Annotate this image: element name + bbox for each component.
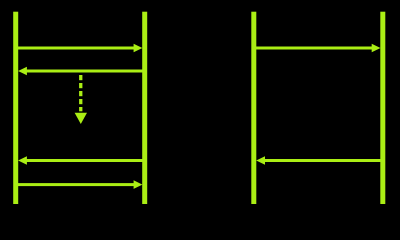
arrow M5 right L1->L2	[16, 180, 143, 189]
lifeline L2	[142, 12, 147, 204]
arrow M2 left L2->L1	[18, 67, 145, 76]
arrow M4 left L2->L1	[18, 156, 145, 165]
arrow M1 right L1->L2	[16, 44, 143, 53]
lifeline L1	[13, 12, 18, 204]
lifeline L4	[380, 12, 385, 204]
arrow M6 right L3->L4	[254, 44, 381, 53]
arrow M7 left L4->L3	[256, 156, 383, 165]
lifeline L3	[251, 12, 256, 204]
dashed self arrow M3 down	[75, 75, 87, 124]
